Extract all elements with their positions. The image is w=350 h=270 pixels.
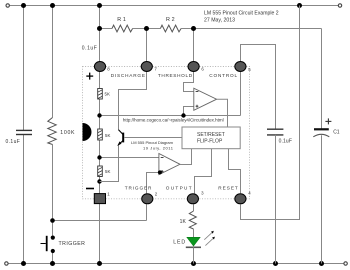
svg-text:RESET: RESET [218,186,238,191]
wire bottom ground rail [8,263,343,265]
transistor Q1 discharge [117,130,123,146]
svg-text:DISCHARGE: DISCHARGE [111,73,145,78]
terminal top-left [6,4,9,7]
junction rail x100 [97,3,102,8]
resistor 1K [189,211,196,229]
junction rail x52 [50,3,55,8]
junction comparator1 branch [181,113,185,117]
wire switch junction to pin2 [53,204,147,220]
pin 7 discharge [141,62,152,72]
pin 4 reset [235,194,246,204]
svg-text:5K: 5K [105,133,110,138]
svg-text:TRIGGER: TRIGGER [59,241,86,247]
pin 6 threshold [188,62,199,72]
polarity plus symbol [86,73,93,80]
terminal top-right [338,4,341,7]
svg-text:SET/RESET: SET/RESET [197,132,225,138]
resistor 5K second [98,129,103,140]
LED diode [186,237,201,247]
junction switch-pin2 [50,218,55,223]
wire comparator2 output to flipflop [180,149,192,165]
wire flipflop reset to pin4 [229,149,241,194]
junction ground x322 [319,261,324,266]
svg-text:3: 3 [201,191,204,196]
wire control cap to ground [275,135,277,264]
flip-flop box [182,127,240,149]
svg-text:TRIGGER: TRIGGER [125,186,152,191]
wire top supply rail [10,5,339,7]
wire VCC to pin8 column [99,6,101,264]
wire node B to comparator2 minus [100,157,159,159]
svg-text:C1: C1 [333,130,340,136]
resistor 5K third [98,166,103,177]
svg-text:2: 2 [155,191,158,196]
junction node B [97,155,101,159]
wire C1 top [321,29,323,129]
pin 5 control [235,62,246,72]
svg-text:CONTROL: CONTROL [209,73,237,78]
pin 1 ground square [94,194,105,204]
svg-text:LM 555 Pinout Circuit Example: LM 555 Pinout Circuit Example 2 [204,10,279,16]
wire R1 R2 row [100,29,322,62]
IC notch semicircle [83,123,92,141]
wire pin6 to comparator1 minus jog [184,72,194,92]
wire flipflop output to pin3 [195,149,212,194]
capacitor 0.1uF right [267,129,283,135]
svg-text:OUTPUT: OUTPUT [166,186,192,191]
svg-text:4: 4 [248,191,251,196]
svg-text:R1: R1 [117,17,126,23]
svg-text:0.1uF: 0.1uF [6,139,20,145]
svg-text:8: 8 [107,67,110,72]
pin 3 output [187,194,198,204]
resistor 5K first [98,89,103,100]
junction ground x193 [191,261,196,266]
label plus C1 [325,118,331,124]
svg-text:R2: R2 [166,17,175,23]
pushbutton switch TRIGGER [41,236,55,254]
LED emission arrows [204,231,215,246]
wire pin3 to 1K [193,204,195,211]
wire 1K to LED [193,229,195,238]
IC box LM555 dotted outline [83,67,250,199]
wire comparator1 output to flipflop [217,99,228,127]
capacitor C1 [313,129,329,137]
junction R1-R2 [144,26,149,31]
junction ground x275 [273,261,278,266]
wire left vertical branch (C2 column) [23,6,25,264]
svg-text:1K: 1K [180,219,187,225]
junction node A [97,113,101,117]
wire transistor base to flipflop [124,137,182,139]
wire pin5 to control cap [241,45,276,130]
svg-text:5: 5 [248,67,251,72]
svg-text:FLIP-FLOP: FLIP-FLOP [197,138,223,144]
svg-text:7: 7 [154,67,157,72]
junction node C [97,179,101,183]
svg-text:LM 555 Pinout Diagram: LM 555 Pinout Diagram [131,140,174,145]
svg-text:1: 1 [107,191,110,196]
wire pin4 reset to rail [241,6,300,220]
junction comparator2 plus [158,170,162,174]
resistor R2 [160,25,181,32]
wire C1 to ground [321,135,323,263]
terminal bottom-left [5,262,8,265]
svg-text:0.1uF: 0.1uF [82,46,97,52]
svg-text:http://home.cogeco.ca/~rpaisle: http://home.cogeco.ca/~rpaisley4/Circuit… [123,118,224,123]
wire emitter to node C [100,145,119,182]
wire node A to control [100,115,241,117]
svg-text:LED: LED [173,240,185,246]
wire 100K column [52,6,54,264]
junction rail x299 [297,3,302,8]
svg-text:27 May, 2013: 27 May, 2013 [204,17,235,23]
svg-text:THRESHOLD: THRESHOLD [158,73,193,78]
junction ground x100 [97,261,102,266]
polarity minus symbol [86,188,94,190]
svg-text:6: 6 [201,67,204,72]
svg-text:19 July, 2011: 19 July, 2011 [143,145,174,150]
svg-text:0.1uF: 0.1uF [279,139,292,145]
op-amp comparator2 [159,154,180,175]
svg-text:5K: 5K [105,91,110,96]
wire comparator1 plus input branch [184,107,194,116]
resistor 100K [48,118,56,145]
junction R2 right [191,26,196,31]
junction ground x23 [21,261,26,266]
wire pin2 trigger to comparator2 plus [147,173,159,194]
svg-text:100K: 100K [60,130,75,136]
svg-text:5K: 5K [105,169,110,174]
wire pin7 discharge path [119,67,147,131]
junction ground x52 [50,261,55,266]
op-amp comparator1 [194,88,217,110]
wire pin5 control drop [240,72,242,116]
junction rail x23 [21,3,26,8]
junction R1 left [97,26,102,31]
terminal bottom-right [344,262,347,265]
capacitor 0.1uF left [16,130,32,134]
pin 8 VCC [94,62,105,72]
pin 2 trigger [142,194,153,204]
wire LED to ground [193,247,195,263]
resistor R1 [112,25,133,32]
